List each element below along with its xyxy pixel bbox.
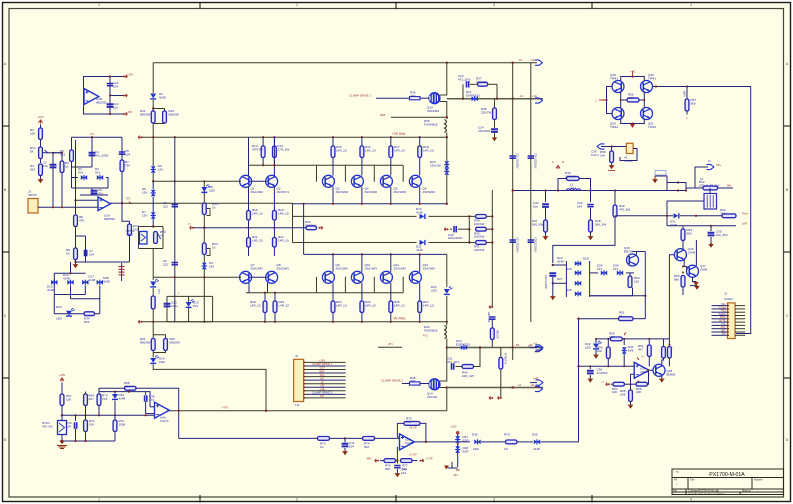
svg-text:-A3: -A3: [533, 342, 538, 345]
svg-text:15V: 15V: [142, 190, 147, 194]
svg-text:L4R_10: L4R_10: [252, 211, 263, 215]
transistor Q7 (mirrored): [240, 271, 252, 283]
light blue no-ERC box: [655, 171, 666, 176]
ground of servo leg: [75, 262, 77, 265]
svg-text:222: 222: [163, 204, 168, 208]
Q22 collector gnd: [661, 376, 663, 380]
svg-text:2SA1943: 2SA1943: [394, 266, 407, 270]
output transistor Q5: [380, 175, 392, 187]
svg-text:1K: 1K: [66, 251, 70, 255]
upper input wire: [76, 199, 99, 201]
coil bus y=215.8: [615, 215, 673, 217]
svg-text:9V1: 9V1: [78, 170, 84, 174]
svg-text:2: 2: [296, 3, 298, 7]
svg-text:RB 104: RB 104: [495, 330, 498, 339]
relay top feed resistor R52: [686, 187, 703, 189]
base rail y=165.2 for output NPNs: [249, 164, 404, 166]
header TP strip: [121, 263, 123, 281]
title block: [672, 469, 784, 495]
svg-text:680: 680: [687, 231, 692, 235]
svg-text:TIP42: TIP42: [610, 125, 618, 129]
svg-text:680/2W: 680/2W: [140, 340, 151, 344]
output transistor Q12: [409, 271, 421, 283]
gnd stub near J3: [690, 285, 697, 287]
relay K1: [704, 194, 717, 210]
mosfet stubs lower: [440, 367, 447, 382]
op-amp U1 output wire with TP1: [111, 202, 122, 204]
svg-text:ARC 222: ARC 222: [487, 312, 490, 323]
svg-text:2: 2: [296, 498, 298, 502]
wire to feedback tap: [153, 365, 266, 411]
svg-text:LED: LED: [473, 447, 480, 451]
svg-text:220/7W: 220/7W: [481, 110, 492, 114]
mosfet Q14: [429, 379, 440, 390]
svg-text:TP1: TP1: [125, 197, 131, 201]
svg-text:L4R_10: L4R_10: [250, 303, 261, 307]
svg-text:10K: 10K: [609, 335, 614, 339]
svg-text:▪: ▪: [676, 484, 677, 487]
svg-text:C:\Design\PX1700-M-01A.ddb: C:\Design\PX1700-M-01A.ddb: [688, 490, 720, 493]
svg-text:100u/100V: 100u/100V: [448, 236, 463, 240]
svg-text:47u_100V: 47u_100V: [95, 153, 109, 157]
decoupling chain x=494.5: [494, 99, 496, 108]
svg-text:10R/4W: 10R/4W: [565, 174, 576, 178]
base feed Q16 from comparator: [669, 255, 674, 347]
diode D21 espike: [472, 96, 478, 101]
lower output bus y=387.5: [447, 387, 543, 389]
svg-text:REF: REF: [319, 369, 325, 373]
svg-text:Pmt+: Pmt+: [742, 212, 749, 216]
svg-text:4148: 4148: [557, 259, 564, 263]
bridge center resistor R56: [620, 92, 622, 108]
svg-text:L4R_10: L4R_10: [252, 238, 263, 242]
bias wire y=227.8 with TP2: [193, 227, 306, 229]
emitter columns lower: [332, 254, 334, 271]
op-amp output to Q18 base: [650, 369, 654, 371]
svg-text:1K: 1K: [212, 245, 216, 249]
svg-text:470_5W: 470_5W: [619, 207, 630, 211]
svg-text:KT1: KT1: [157, 289, 161, 294]
svg-text:D25: D25: [583, 257, 589, 261]
connector J2 CON12: [294, 359, 304, 401]
wire y=277.3 from x=153: [153, 276, 241, 278]
bridge transistor Q19: [641, 81, 653, 93]
svg-text:-15V: -15V: [127, 110, 133, 114]
connector J3 CON10: [728, 303, 736, 339]
svg-text:47u/50V: 47u/50V: [597, 371, 608, 375]
vertical x=469.3: [468, 216, 470, 242]
node C3 top rail: [72, 136, 123, 138]
bridge power - symbol: [630, 124, 635, 128]
resistor R53 to Pmt: [722, 214, 736, 218]
svg-text:4K7: 4K7: [638, 347, 644, 351]
svg-text:Title: Title: [690, 479, 695, 482]
svg-text:L4R_10: L4R_10: [423, 303, 434, 307]
svg-text:1K5: 1K5: [406, 420, 412, 424]
speaker + port: [695, 167, 708, 188]
op-amp U3 comparator: [634, 362, 649, 378]
zener D33: [623, 339, 625, 345]
capacitor C21 104: [107, 84, 113, 86]
zener D2 pair: [72, 187, 109, 189]
sense resistor R49 to protection: [614, 191, 616, 206]
comparator rail y=391.6: [99, 391, 146, 393]
svg-text:22R_S_50_1W: 22R_S_50_1W: [699, 183, 720, 187]
lower base rail y=292.7: [246, 292, 403, 294]
Q16/Q17 wiring: [683, 260, 685, 267]
svg-text:100u: 100u: [171, 304, 178, 308]
svg-text:NC: NC: [320, 394, 324, 398]
svg-text:560_5W: 560_5W: [595, 222, 606, 226]
transistor Q2 BD139: [266, 175, 278, 187]
svg-text:File:: File:: [673, 491, 678, 493]
J2 pin wires: [304, 361, 346, 363]
svg-text:R: R: [562, 160, 564, 164]
svg-text:REF: REF: [380, 113, 386, 117]
cap C35 10u: [710, 226, 712, 231]
svg-text:4K7: 4K7: [89, 397, 95, 401]
lower resistors columns: [332, 283, 334, 322]
svg-text:10R_4W: 10R_4W: [462, 374, 474, 378]
svg-text:4148: 4148: [416, 248, 423, 252]
svg-text:C3: C3: [90, 132, 94, 136]
feedback/lower input leg x=75.5: [75, 140, 77, 200]
svg-text:1M: 1M: [124, 384, 129, 388]
svg-text:D36: D36: [532, 433, 538, 437]
diode D14 LED below: [152, 353, 154, 358]
svg-text:L4R_10: L4R_10: [279, 303, 290, 307]
thermal sense box NTC: [139, 227, 164, 249]
capacitor C42 104 to gnd: [396, 461, 398, 464]
svg-text:471_2KV: 471_2KV: [458, 77, 470, 81]
lower snubber loop C31 R44: [446, 348, 448, 367]
op-amp U1 NE5532 input stage: [98, 197, 111, 211]
capacitor C5 / resistor R7 leg: [121, 137, 123, 203]
svg-text:4148: 4148: [89, 278, 96, 282]
svg-text:LMT: LMT: [742, 222, 748, 226]
svg-text:560: 560: [691, 101, 696, 105]
border zone ticks: [199, 2, 201, 9]
base tie Q7-Q8: [249, 276, 268, 278]
clamp lower bus y=347.5: [447, 347, 543, 349]
sense wire y=415.3: [62, 414, 155, 416]
svg-text:471_2KV: 471_2KV: [447, 360, 459, 364]
base risers PNP row: [316, 277, 319, 292]
resistor R39 100/1W: [469, 215, 475, 217]
svg-text:222: 222: [163, 262, 168, 266]
resistor R71 10K: [85, 415, 87, 420]
svg-text:TL072: TL072: [405, 441, 414, 445]
svg-text:+15V: +15V: [59, 373, 66, 377]
trimmer RV1: [39, 147, 43, 159]
wire VAS to output stage lower: [293, 242, 417, 244]
svg-text:+MID: +MID: [533, 378, 539, 381]
resistor R9: [74, 248, 78, 260]
svg-text:FX1: FX1: [423, 334, 428, 338]
svg-text:ESP: ESP: [463, 449, 469, 453]
feedback top rail y=388.3: [99, 388, 125, 391]
svg-text:L4R_10: L4R_10: [423, 148, 434, 152]
zener D9: [202, 263, 207, 269]
capacitor C7 104: [85, 236, 87, 262]
resistor R73 1K: [318, 437, 330, 441]
resistor R62 to Q emitter: [663, 339, 665, 347]
svg-text:SIG: SIG: [320, 373, 325, 377]
svg-text:4148: 4148: [159, 95, 166, 99]
svg-text:2SJ449: 2SJ449: [427, 395, 438, 399]
svg-text:680: 680: [674, 277, 679, 281]
mosfet Q13: [429, 93, 440, 104]
svg-text:TIP41: TIP41: [648, 76, 656, 80]
svg-text:2SC5200: 2SC5200: [365, 190, 378, 194]
J3 right pin stubs: [735, 305, 745, 307]
transistor Q22: [653, 364, 665, 376]
port SP- arrow left: [597, 144, 604, 149]
svg-text:B: B: [786, 188, 788, 192]
svg-text:-MID: -MID: [534, 386, 540, 389]
svg-text:1: 1: [98, 498, 100, 502]
svg-text:PX1700-M-01A: PX1700-M-01A: [709, 472, 745, 478]
in+ chain down: [396, 447, 398, 461]
svg-text:CON10: CON10: [724, 297, 733, 301]
trimmer RV4: [202, 243, 206, 255]
svg-text:ESPIKE10: ESPIKE10: [466, 93, 481, 97]
svg-text:560_5W: 560_5W: [532, 222, 543, 226]
zener D7: [151, 212, 156, 218]
svg-text:10K: 10K: [600, 153, 605, 157]
svg-text:2SA1930: 2SA1930: [251, 190, 264, 194]
resistor R67 10K: [61, 383, 63, 395]
emitter rail y=203.8: [293, 203, 447, 205]
connector J1 INPUT: [28, 199, 38, 214]
output transistor Q3: [322, 175, 334, 187]
svg-text:680/2W: 680/2W: [140, 112, 151, 116]
lower chains x=500.8: [500, 348, 502, 388]
svg-text:47R/1W: 47R/1W: [252, 147, 263, 151]
bridge transistor Q21: [641, 108, 653, 120]
svg-text:4: 4: [690, 498, 692, 502]
svg-text:LED: LED: [431, 288, 438, 292]
emitter resistor R15: [332, 137, 334, 175]
inductor L1 4uH: [567, 189, 581, 191]
resistor R63 comparator feed: [668, 347, 672, 359]
svg-text:C27 222/2KV: C27 222/2KV: [516, 237, 520, 253]
lower comparator legs: [75, 415, 77, 421]
red pins under columns: [489, 396, 492, 399]
svg-text:104: 104: [349, 444, 354, 448]
op-amp U4 TL072: [155, 402, 170, 418]
svg-text:1K: 1K: [160, 233, 164, 237]
protection transistor wiring: [590, 288, 633, 296]
protection diode ladder D24-D27: [553, 264, 567, 266]
svg-text:LED: LED: [159, 360, 166, 364]
U4 inputs: [146, 413, 155, 415]
emitter resistor R17: [390, 137, 392, 175]
svg-text:+C.OP: +C.OP: [409, 453, 417, 457]
svg-text:5K6: 5K6: [84, 320, 90, 324]
svg-text:680/2W: 680/2W: [169, 112, 180, 116]
+VE RAIL bus: [142, 136, 448, 138]
svg-text:562: 562: [364, 445, 369, 449]
bridge transistor Q18: [612, 81, 624, 93]
wire top rail y=62.7: [153, 62, 447, 64]
vertical feed x=153.2: [152, 63, 154, 93]
svg-text:B2: B2: [516, 343, 520, 347]
resistor R22 below: [273, 228, 275, 256]
svg-text:J3: J3: [724, 292, 727, 296]
resistor R6 2K: [71, 137, 73, 167]
svg-text:200K: 200K: [126, 232, 133, 236]
relay coil loop: [666, 201, 668, 226]
wire x=153 to lower rail: [152, 249, 154, 278]
svg-text:2SA1943: 2SA1943: [251, 266, 264, 270]
output transistor Q6: [409, 175, 421, 187]
diode D36: [534, 440, 540, 445]
svg-text:A2: A2: [518, 383, 522, 387]
svg-text:680/2W: 680/2W: [170, 340, 181, 344]
svg-text:F: F: [552, 160, 554, 164]
svg-text:10K: 10K: [30, 131, 35, 135]
resistor R40 100/1W: [476, 227, 487, 231]
power +15V P2: [60, 378, 64, 381]
transistor Q15 BD139: [627, 254, 639, 266]
left pair lower resistors: [264, 293, 266, 301]
capacitor C30: [489, 305, 492, 308]
svg-text:1K: 1K: [320, 445, 324, 449]
svg-text:TL072: TL072: [160, 419, 169, 423]
resistor R66 1K8 to gnd: [630, 384, 632, 390]
wire output to relay: [667, 190, 686, 192]
svg-text:104: 104: [125, 152, 130, 156]
bridge top rail: [621, 77, 645, 82]
diode bridge ladder D15-D18: [70, 262, 72, 273]
emitter resistor R18: [419, 137, 421, 175]
fusible resistor R43 lower: [446, 322, 448, 326]
svg-text:7K5: 7K5: [102, 397, 108, 401]
svg-text:2SC5200: 2SC5200: [423, 190, 436, 194]
output transistor Q4: [351, 175, 363, 187]
supervisor top rail y=338.9: [596, 338, 669, 340]
svg-text:L4R_10: L4R_10: [336, 303, 347, 307]
svg-text:A1: A1: [520, 94, 524, 98]
svg-text:3: 3: [493, 3, 495, 7]
svg-text:4148: 4148: [416, 210, 423, 214]
zobel leg 1: C32 + R47: [545, 191, 547, 203]
wire VAS to output stage upper: [293, 215, 417, 217]
svg-text:2SC5171: 2SC5171: [277, 190, 290, 194]
ground NTC: [59, 440, 64, 444]
svg-text:L4R_10: L4R_10: [365, 303, 376, 307]
NP cap C34 chain: [549, 273, 556, 276]
regulator X1 (TO92 box): [626, 143, 633, 153]
svg-text:LED: LED: [585, 345, 592, 349]
snubber loop C23 R37: [462, 84, 464, 98]
wire base rail y=181.3 to Q pair: [153, 180, 241, 182]
J3 left pin wires: [712, 305, 728, 307]
resistor R59 on rail: [610, 337, 622, 341]
svg-text:562: 562: [30, 167, 35, 171]
zener D6: [152, 181, 154, 189]
emitter resistor R16: [361, 137, 363, 175]
lower emitter rail y=254.4: [304, 253, 447, 255]
diode D31 relay: [674, 213, 679, 218]
svg-text:+VE: +VE: [319, 387, 324, 391]
output continues to relay area: [667, 183, 678, 191]
svg-text:L4R_10: L4R_10: [278, 238, 289, 242]
svg-text:LED: LED: [209, 188, 216, 192]
resistor R55 to rail: [681, 276, 685, 288]
svg-text:FUSABLE: FUSABLE: [424, 122, 438, 126]
capacitor C9 222: [172, 263, 178, 265]
svg-text:+LTP: +LTP: [534, 351, 540, 354]
fusible resistor R36: [445, 120, 447, 133]
op-amp U2 NE5532 supply loop: [84, 77, 111, 115]
output transistor Q11: [380, 271, 392, 283]
zener pair D29 D30: [590, 272, 598, 274]
svg-text:NE5532: NE5532: [96, 100, 107, 104]
wire input to op-amp U1: [38, 206, 98, 208]
svg-text:MB: MB: [727, 184, 731, 188]
ground below R4: [38, 180, 42, 183]
svg-text:JP1: JP1: [388, 342, 393, 346]
svg-text:SP+: SP+: [716, 163, 722, 167]
LED D32 to gnd: [595, 339, 597, 343]
resistor R69 4K7: [85, 392, 87, 394]
capacitor C6 47u: [91, 188, 93, 195]
svg-text:L4R_10: L4R_10: [278, 211, 289, 215]
pin +15V stub: [110, 76, 124, 78]
zener D5 on x=153: [152, 137, 154, 166]
svg-text:2SA1943: 2SA1943: [277, 266, 290, 270]
svg-text:FUSABLE: FUSABLE: [424, 328, 438, 332]
feedback resistor R51 10R: [614, 318, 619, 320]
svg-text:104: 104: [113, 84, 118, 88]
svg-text:1K2: 1K2: [60, 152, 66, 156]
resistor R30 vertical tall: [152, 288, 154, 296]
lower sense box with C10 and D13: [167, 296, 213, 321]
resistor R5 1K: [61, 153, 63, 206]
bridge bottom rail: [621, 119, 645, 124]
cap C38 with gnd: [589, 366, 591, 369]
svg-text:10K: 10K: [66, 397, 71, 401]
supervisor rail vertical x=578.5: [578, 319, 580, 442]
stub x=512.7 end: [512, 348, 514, 361]
svg-text:L4R_10: L4R_10: [336, 148, 347, 152]
svg-text:-15V: -15V: [453, 473, 459, 477]
svg-text:L4R_10: L4R_10: [394, 148, 405, 152]
svg-text:CLAMP DRIVE 2: CLAMP DRIVE 2: [381, 378, 403, 382]
svg-text:Drawn By: P.Xaudio Rev 1.0 2: Drawn By: P.Xaudio Rev 1.0 2003-06: [688, 493, 725, 496]
wire y=146.5: [601, 146, 629, 148]
emitter resistor R20: [273, 211, 277, 221]
svg-text:4148: 4148: [119, 396, 126, 400]
svg-text:-MID: -MID: [366, 458, 372, 461]
resistor R61 4K7: [648, 339, 650, 345]
svg-text:+15V: +15V: [127, 73, 134, 77]
capacitor C41: [344, 438, 346, 442]
svg-text:104: 104: [577, 204, 582, 208]
bottom wire of RC box: [72, 166, 93, 168]
svg-text:TIP42: TIP42: [648, 125, 656, 129]
svg-text:NE5532: NE5532: [104, 217, 115, 221]
diode D4: [150, 94, 156, 99]
svg-text:100/1W: 100/1W: [305, 223, 316, 227]
bottom rail y=441: [62, 440, 115, 442]
svg-text:5V1: 5V1: [193, 304, 199, 308]
power flag FR on output node: [556, 166, 560, 169]
U5 output wire: [415, 441, 470, 443]
svg-text:10K: 10K: [89, 422, 94, 426]
